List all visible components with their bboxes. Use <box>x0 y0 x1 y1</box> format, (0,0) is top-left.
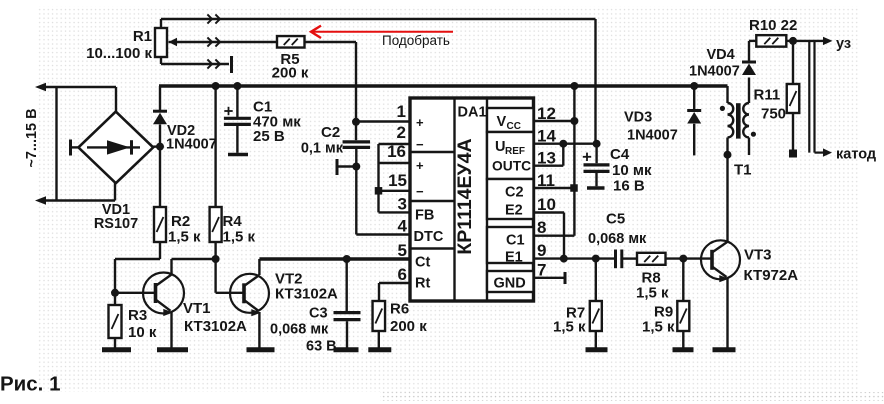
wire pin1 to C2 node <box>356 120 411 122</box>
svg-text:C3: C3 <box>309 306 328 322</box>
junction bus Vcc <box>570 82 578 90</box>
label VT3 <box>744 247 799 285</box>
svg-text:E2: E2 <box>505 203 523 219</box>
wire bus to VD2 <box>159 86 161 110</box>
svg-text:OUTC: OUTC <box>492 159 531 174</box>
box Vcc <box>487 108 534 132</box>
ground R6 <box>368 347 391 352</box>
label out C2 <box>505 185 524 201</box>
wire VD4 to R10 <box>749 41 756 61</box>
wire node to R11 <box>792 41 794 84</box>
terminal bar bridge left <box>69 140 72 156</box>
svg-text:2: 2 <box>397 123 406 142</box>
wire node to R9 <box>682 259 684 301</box>
box C2 E2 <box>487 179 534 219</box>
svg-text:750: 750 <box>761 106 786 123</box>
ground R9 <box>673 347 694 352</box>
wire VT3 emitter <box>712 267 729 348</box>
diode VD4 <box>742 62 756 75</box>
svg-text:8: 8 <box>537 218 546 237</box>
label C5 value <box>588 211 647 248</box>
diode VD3 <box>687 111 701 124</box>
resistor R10 <box>756 35 786 47</box>
wire node to VT3 base <box>683 257 712 259</box>
wire Vcc vertical <box>573 86 575 236</box>
resistor R7 <box>590 301 602 331</box>
terminal bar C1 bottom <box>228 153 248 156</box>
label amp1 plus <box>416 115 424 130</box>
wire R11 to terminal <box>792 113 794 150</box>
wire R2 to VT1 base node <box>115 242 160 293</box>
svg-text:1,5 к: 1,5 к <box>642 319 675 336</box>
junction C2 bottom <box>352 163 360 171</box>
wire node to R3 <box>114 293 116 305</box>
svg-text:Rt: Rt <box>415 276 430 292</box>
label C4 value <box>610 146 652 195</box>
wire AC input bottom with arrow <box>35 183 115 205</box>
wire pin9 to C5 <box>534 257 615 259</box>
svg-text:C4: C4 <box>610 146 630 163</box>
pin 6 <box>398 265 407 284</box>
capacitor C1 <box>224 107 251 125</box>
wire C2 node left <box>339 165 357 167</box>
node katod label <box>836 147 876 163</box>
label VT1 <box>183 300 247 335</box>
resistor R6 <box>373 301 386 331</box>
pin 14 <box>537 127 556 146</box>
label R9 value <box>642 304 675 336</box>
wire R1 top vertical to Uref node <box>594 19 596 144</box>
label GND <box>494 276 526 292</box>
junction R10 R11 <box>789 37 797 45</box>
label C3 value <box>270 306 337 355</box>
wire C1 to bar <box>236 125 238 152</box>
transistor VT3 <box>701 240 740 279</box>
wire VT2 collector <box>244 259 259 286</box>
capacitor C2 <box>343 142 371 148</box>
svg-text:3: 3 <box>398 195 407 214</box>
svg-text:15: 15 <box>388 171 407 190</box>
label T1 <box>734 162 752 179</box>
wire VT2 collector to pin5 Ct <box>259 257 410 260</box>
wire main positive bus <box>159 84 728 88</box>
svg-text:КТ3102А: КТ3102А <box>275 286 338 303</box>
wire C2 node to pin4 DTC <box>356 167 410 235</box>
label R1 value <box>86 28 152 62</box>
label input voltage <box>24 108 40 167</box>
wire VD2 anode to node <box>159 125 161 147</box>
wire R10 to uz arrow <box>787 37 833 45</box>
wire katod line 2 <box>813 41 815 153</box>
svg-text:REF: REF <box>505 146 525 157</box>
pin 16 <box>387 142 406 161</box>
ground VT2 <box>247 347 275 352</box>
svg-text:T1: T1 <box>734 162 752 179</box>
svg-text:25 В: 25 В <box>253 128 285 145</box>
svg-text:−: − <box>416 137 424 152</box>
ground R3 <box>102 347 131 352</box>
svg-text:1,5 к: 1,5 к <box>636 285 669 302</box>
svg-text:FB: FB <box>415 208 434 224</box>
wire pin12 Vcc <box>534 120 575 122</box>
label amp2 minus <box>416 184 424 199</box>
wire base VT1 <box>115 292 156 294</box>
wire pin7 GND <box>534 277 565 279</box>
terminal bar pin7 <box>564 272 567 284</box>
capacitor C4 <box>583 153 610 172</box>
wire AC input top with arrow <box>35 83 116 112</box>
junction pin11 <box>570 184 578 192</box>
svg-text:1,5 к: 1,5 к <box>553 319 586 336</box>
label Podobrat <box>382 33 450 48</box>
label R7 value <box>553 305 586 336</box>
terminal bar C4 bottom <box>587 186 605 189</box>
label R6 value <box>390 301 427 336</box>
pin 5 <box>398 241 407 260</box>
pin 4 <box>398 217 408 236</box>
resistor R9 <box>677 301 689 331</box>
ground C3 <box>334 347 359 352</box>
junction bus VD3 <box>690 82 698 90</box>
wire Uref vertical crossing bus <box>355 121 357 122</box>
wire VT2 emitter <box>244 300 261 348</box>
pin 2 <box>397 123 406 142</box>
pin 7 <box>537 261 546 280</box>
svg-text:~7...15 В: ~7...15 В <box>24 108 40 167</box>
svg-text:0,068 мк: 0,068 мк <box>270 322 329 338</box>
wire bus to R4 <box>214 86 216 207</box>
transistor VT1 <box>143 273 184 314</box>
wire pin13 tie <box>534 144 564 166</box>
svg-text:10...100 к: 10...100 к <box>86 45 152 62</box>
pin 9 <box>537 241 546 260</box>
resistor R4 <box>210 207 222 242</box>
resistor R3 <box>109 305 122 338</box>
junction VD2 bridge R2 <box>156 143 164 151</box>
junction pin12 <box>570 117 578 125</box>
wire R7 to ground <box>595 331 597 348</box>
wire node to VT2 base <box>216 259 244 293</box>
svg-text:10 к: 10 к <box>128 324 157 341</box>
ground R7 <box>586 347 608 352</box>
svg-text:R4: R4 <box>223 213 243 230</box>
label R4 value <box>223 213 256 246</box>
svg-text:RS107: RS107 <box>94 216 138 232</box>
label Uref <box>495 139 525 157</box>
wire R1 wiper to R5 <box>177 41 277 43</box>
wire bus to C1 <box>236 86 238 117</box>
label DTC <box>414 229 444 245</box>
svg-text:R1: R1 <box>133 28 152 45</box>
red arrow Podobrat <box>311 26 453 38</box>
wire AC tie vertical <box>55 87 57 201</box>
svg-text:−: − <box>416 184 424 199</box>
svg-text:1,5 к: 1,5 к <box>223 229 256 246</box>
wire R1 top to Uref net <box>161 19 596 28</box>
wire C2 bottom lead <box>355 149 357 167</box>
junction VT1 base node <box>111 289 119 297</box>
wire node to C3 <box>346 259 348 311</box>
box GND <box>487 271 534 292</box>
svg-text:6: 6 <box>398 265 407 284</box>
box Uref OUTC <box>487 132 534 179</box>
wire R3 to ground <box>114 338 116 348</box>
wire C3 to ground <box>346 321 348 347</box>
label FB <box>415 208 434 224</box>
svg-text:C5: C5 <box>606 211 625 228</box>
resistor R11 <box>787 84 800 113</box>
pin 12 <box>537 104 556 123</box>
svg-text:DA1: DA1 <box>458 105 487 121</box>
svg-text:5: 5 <box>398 241 407 260</box>
svg-text:0,1 мк: 0,1 мк <box>301 141 344 157</box>
wire pin8 <box>534 234 575 236</box>
wire katod line 1 <box>808 41 810 153</box>
label R3 value <box>128 307 157 341</box>
svg-text:R2: R2 <box>171 213 190 230</box>
op-amp U1 IC DA1 KR1114EU4A outer box <box>410 98 534 301</box>
svg-text:CC: CC <box>507 121 521 132</box>
svg-text:1,5 к: 1,5 к <box>168 229 201 246</box>
label C2 value <box>301 124 344 157</box>
transformer T1 <box>720 78 756 156</box>
svg-text:VD3: VD3 <box>624 110 652 126</box>
cable arrows on R1 bottom wire <box>207 59 220 68</box>
junction pin15 tie <box>375 187 383 195</box>
label R10 value <box>749 17 797 34</box>
pin 13 <box>537 149 556 168</box>
junction pin14 C4 <box>593 140 601 148</box>
svg-text:C2: C2 <box>505 185 524 201</box>
box C1 E1 <box>487 227 534 263</box>
svg-text:63 В: 63 В <box>306 339 337 355</box>
junction pin1 C2 <box>352 118 360 126</box>
pin 10 <box>537 195 556 214</box>
label VD3 <box>624 110 678 144</box>
wire katod arrow <box>815 148 833 156</box>
svg-text:Ct: Ct <box>415 255 430 271</box>
wire C5 to R8 <box>622 257 637 259</box>
svg-text:R6: R6 <box>390 301 409 318</box>
junction bus R4 <box>212 82 220 90</box>
svg-text:1: 1 <box>397 102 406 121</box>
pin 1 <box>397 102 406 121</box>
wire R6 to ground <box>378 331 380 348</box>
ground VT3 <box>713 347 736 352</box>
svg-text:U: U <box>495 139 505 155</box>
svg-text:+: + <box>416 115 424 130</box>
svg-text:КТ972А: КТ972А <box>744 267 799 284</box>
label out C1 <box>506 233 525 249</box>
capacitor C3 <box>334 313 361 320</box>
label Ct <box>415 255 430 271</box>
label C1 value <box>253 99 301 146</box>
svg-text:0,068 мк: 0,068 мк <box>588 231 647 247</box>
wire R1 bottom stub <box>161 57 229 64</box>
label R2 value <box>168 213 201 246</box>
svg-text:200 к: 200 к <box>272 65 309 82</box>
wire C2 top lead <box>355 122 357 140</box>
label IC type <box>454 138 476 254</box>
terminal square R11 <box>789 150 797 158</box>
svg-text:1N4007: 1N4007 <box>627 128 678 144</box>
svg-text:КР1114ЕУ4А: КР1114ЕУ4А <box>454 138 476 254</box>
wire node to R7 <box>595 259 597 301</box>
wire VT1 emitter <box>156 300 173 348</box>
wire R4 to collector node <box>214 242 216 259</box>
capacitor C5 <box>616 250 622 269</box>
label OUTC <box>492 159 531 174</box>
wire node to C4 <box>595 144 597 164</box>
resistor R2 <box>154 207 166 242</box>
terminal bar C2 left <box>336 159 339 175</box>
label out E2 <box>505 203 523 219</box>
label R8 value <box>636 270 669 302</box>
svg-text:DTC: DTC <box>414 229 444 245</box>
wire pin16 <box>379 162 411 164</box>
junction VT1 collector R4 VT2 base <box>212 255 220 263</box>
wire pin11 <box>534 187 575 189</box>
wire bus to VD3 <box>693 86 695 109</box>
svg-text:R11: R11 <box>754 87 781 104</box>
junction pin9 pin10 <box>560 255 568 263</box>
ground VT1 <box>157 347 188 352</box>
label Rt <box>415 276 430 292</box>
pin 3 <box>398 195 407 214</box>
svg-text:10: 10 <box>537 195 556 214</box>
svg-text:200 к: 200 к <box>390 318 427 335</box>
svg-text:E1: E1 <box>505 250 523 266</box>
diode VD2 <box>153 111 167 124</box>
label out E1 <box>505 250 523 266</box>
cable arrows on wiper wire <box>207 37 220 46</box>
resistor R5 <box>277 36 305 48</box>
caption Ris.1 <box>0 373 60 396</box>
pin 15 <box>388 171 407 190</box>
wire C4 bottom <box>595 173 597 186</box>
bridge rectifier VD1 <box>78 112 153 184</box>
label amp2 plus <box>416 158 424 173</box>
junction pin14 pin13 <box>559 140 567 148</box>
resistor R8 <box>637 253 666 265</box>
junction T1 VT3 <box>724 151 732 159</box>
potentiometer R1 <box>155 28 177 57</box>
junction R7 node <box>592 255 600 263</box>
wire VT3 collector to T1 <box>712 155 728 253</box>
wire R8 to R9 node <box>666 257 684 259</box>
svg-text:VT1: VT1 <box>183 300 211 317</box>
label DA1 <box>458 105 487 121</box>
wire feedback vertical <box>377 144 379 212</box>
svg-text:1N4007: 1N4007 <box>689 64 740 80</box>
pin 8 <box>537 218 546 237</box>
svg-text:VT3: VT3 <box>744 247 772 264</box>
node uz label <box>836 36 851 52</box>
wire R5 to pin1 node <box>305 42 357 121</box>
label R5 value <box>272 51 309 82</box>
svg-text:16 В: 16 В <box>613 178 645 195</box>
wire pin15 <box>379 190 411 192</box>
label VD4 <box>689 47 740 80</box>
svg-text:VD4: VD4 <box>707 47 735 63</box>
svg-text:GND: GND <box>494 276 526 292</box>
label VD1 <box>94 202 138 232</box>
junction R9 node <box>679 255 687 263</box>
svg-text:уз: уз <box>836 36 851 52</box>
label amp1 minus <box>416 137 424 152</box>
wire bridge left terminal <box>72 146 79 148</box>
svg-text:катод: катод <box>836 147 876 163</box>
svg-text:9: 9 <box>537 241 546 260</box>
wire pin3 <box>379 211 411 213</box>
terminal bar R1 bottom <box>230 56 233 73</box>
svg-text:C2: C2 <box>321 124 340 141</box>
svg-text:+: + <box>416 158 424 173</box>
wire pin14 Uref <box>534 142 597 144</box>
svg-text:16: 16 <box>387 142 406 161</box>
svg-text:10 мк: 10 мк <box>612 162 652 179</box>
label VT2 <box>275 271 338 303</box>
svg-text:КТ3102А: КТ3102А <box>184 318 247 335</box>
label R11 value <box>754 87 787 123</box>
svg-text:C1: C1 <box>506 233 525 249</box>
label Vcc <box>497 114 521 132</box>
wire pin6 Rt to R6 <box>379 283 411 301</box>
wire pin10 tie <box>534 213 565 259</box>
wire node to R2 <box>159 147 161 207</box>
svg-text:Рис. 1: Рис. 1 <box>0 373 60 396</box>
wire VT1 collector <box>156 259 216 286</box>
svg-text:1N4007: 1N4007 <box>166 137 217 153</box>
wire pin2 <box>379 143 411 145</box>
junction C3 node <box>343 255 351 263</box>
label VD2 <box>166 123 217 153</box>
wire R9 to ground <box>682 331 684 348</box>
svg-text:Подобрать: Подобрать <box>382 33 450 48</box>
svg-text:R10 22: R10 22 <box>749 17 797 34</box>
svg-text:V: V <box>497 114 507 130</box>
transistor VT2 <box>230 274 269 313</box>
pin 11 <box>537 171 555 190</box>
junction bus C1 <box>233 82 241 90</box>
cable arrows on R1 top wire <box>207 14 220 23</box>
wire bridge right to VD2 node <box>153 145 160 147</box>
wire VD3 anode stub <box>693 124 695 156</box>
svg-text:4: 4 <box>398 217 408 236</box>
svg-text:R3: R3 <box>128 307 147 324</box>
